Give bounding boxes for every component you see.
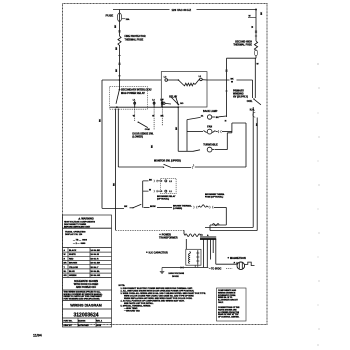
wire main row <box>110 106 178 108</box>
spec rows <box>65 230 88 245</box>
svg-text:RED: RED <box>69 258 74 260</box>
svg-text:BK: BK <box>115 24 117 28</box>
svg-text:BK: BK <box>216 117 220 119</box>
wire color table <box>64 249 101 277</box>
node relay feed <box>177 106 179 108</box>
label HV CAPACITOR <box>146 251 168 254</box>
svg-text:DWG. BY: DWG. BY <box>64 325 73 327</box>
transformer secondary wires <box>204 239 216 267</box>
label 15A <box>122 18 130 21</box>
svg-text:W: W <box>249 16 251 18</box>
svg-text:H.V. CAPACITOR: H.V. CAPACITOR <box>149 251 168 254</box>
svg-text:14 GA BK: 14 GA BK <box>91 249 101 252</box>
label BROWN THERMAL LOWER <box>173 205 193 211</box>
label FUSE <box>106 14 114 18</box>
connector oval <box>254 50 257 56</box>
wire tag ticks left chain <box>118 31 120 76</box>
svg-text:312003624: 312003624 <box>73 312 98 318</box>
svg-text:BR: BR <box>64 263 68 265</box>
svg-text:MAGNETRON: MAGNETRON <box>230 257 246 260</box>
svg-text:ONLY.: ONLY. <box>218 302 224 304</box>
label WIRING DIAGRAM <box>70 304 102 308</box>
label MONITOR SW <box>154 160 181 163</box>
wire lamp left riser <box>186 120 188 152</box>
svg-text:20 GA BL: 20 GA BL <box>91 270 101 273</box>
notes list <box>119 285 207 312</box>
label TO 5VDC <box>209 268 233 271</box>
fan motor M1 <box>187 129 232 134</box>
svg-text:20 GA Y: 20 GA Y <box>91 266 99 269</box>
label 11/94 <box>33 334 42 338</box>
wire return riser to monitor <box>245 123 247 167</box>
svg-text:N.O.: N.O. <box>250 108 255 111</box>
wire transformer feed left <box>116 229 185 231</box>
transformer core <box>200 234 216 239</box>
svg-text:—GROUND TAB: —GROUND TAB <box>124 310 140 313</box>
label SECONDARY INTERLOCK MAG POWER RELAY <box>121 89 152 95</box>
ground <box>160 268 165 274</box>
border wire tag <box>261 11 263 15</box>
contact pin L4 <box>160 99 164 126</box>
wire fan riser right <box>227 123 246 133</box>
svg-text:BK: BK <box>116 68 118 72</box>
relay switch to node <box>175 95 178 104</box>
svg-text:— TB — 0609: — TB — 0609 <box>73 239 88 241</box>
browner relay dashed box <box>161 178 176 193</box>
browner row switch <box>124 204 172 208</box>
label PRIMARY WINDING SUPPLY <box>233 89 248 98</box>
contact pin L3 <box>152 100 155 130</box>
label FIRE PROTECTOR THERMAL FUSE <box>125 35 146 41</box>
svg-text:BROWNER RELAY: BROWNER RELAY <box>157 195 176 198</box>
svg-text:REV. A: REV. A <box>96 319 103 322</box>
svg-text:BEFORE SERVICING UNIT: BEFORE SERVICING UNIT <box>64 227 91 229</box>
label HIGH VOLTAGE DIODE <box>169 272 185 278</box>
svg-text:3120036: 3120036 <box>78 320 85 322</box>
wire HV bottom row <box>162 267 208 269</box>
browner thermal protector <box>194 205 227 209</box>
svg-text:W: W <box>64 254 66 256</box>
label POWER TRANSFORMER <box>159 233 178 239</box>
svg-text:DIODE: DIODE <box>172 276 179 278</box>
cook switch <box>250 98 261 111</box>
svg-text:BK: BK <box>261 11 263 15</box>
svg-text:20 GA GR: 20 GA GR <box>91 274 101 277</box>
svg-text:FUSE (OPTIONAL): FUSE (OPTIONAL) <box>205 195 224 198</box>
wire lamp feed drop <box>176 107 178 151</box>
label TURNTABLE <box>203 144 218 147</box>
svg-text:18 GA BR: 18 GA BR <box>91 262 101 265</box>
node top right <box>255 9 257 11</box>
svg-text:W: W <box>231 81 233 83</box>
wire tag ticks right chain <box>225 31 257 91</box>
interlock dashed box <box>110 86 148 109</box>
svg-text:FAN: FAN <box>207 125 212 128</box>
svg-text:BK: BK <box>116 46 118 50</box>
svg-text:PART NO.: PART NO. <box>64 319 73 322</box>
svg-text:PART NUMBERS AND SPECIFICATION: PART NUMBERS AND SPECIFICATIONS. <box>64 298 101 301</box>
fine print block <box>64 291 104 301</box>
svg-text:W: W <box>257 64 259 66</box>
monitor switch S2 <box>118 164 246 168</box>
label FAN <box>207 125 212 128</box>
wire fuse to thermal fuse <box>115 21 120 36</box>
svg-text:MAG POWER RELAY: MAG POWER RELAY <box>121 92 145 95</box>
svg-text:WIRING DIAGRAM: WIRING DIAGRAM <box>70 304 102 308</box>
wire lamp bottom rail <box>178 150 193 152</box>
svg-text:HIGH VOLTAGE: HIGH VOLTAGE <box>169 272 185 275</box>
browner relay contacts <box>161 180 173 193</box>
wire browner drop <box>210 207 226 230</box>
svg-text:BK/W: BK/W <box>150 206 156 208</box>
svg-text:BROWN: BROWN <box>69 263 78 265</box>
label BACK LAMP <box>203 110 218 113</box>
svg-text:BK: BK <box>176 126 178 130</box>
svg-text:COM: COM <box>145 129 150 131</box>
svg-text:(OPTIONAL): (OPTIONAL) <box>157 198 169 201</box>
svg-text:BLACK: BLACK <box>69 249 77 252</box>
wire primary drop <box>252 80 254 98</box>
turntable motor M2 <box>193 147 227 152</box>
svg-text:11/94: 11/94 <box>33 334 42 338</box>
label DOOR SENSE SW LOWER <box>132 133 153 139</box>
svg-text:(LOWER): (LOWER) <box>132 136 143 139</box>
wire to magnetron <box>216 262 239 265</box>
svg-text:OF CONTROL CENTER.: OF CONTROL CENTER. <box>218 317 240 319</box>
svg-text:FUSE: FUSE <box>106 14 114 18</box>
browner relay leads <box>143 179 161 207</box>
wire neutral jog left <box>227 56 257 59</box>
svg-text:W: W <box>152 115 154 117</box>
svg-text:BK: BK <box>100 118 102 122</box>
contact pin L1 <box>133 100 136 121</box>
back lamp DS1 <box>187 115 227 120</box>
label COIL <box>247 100 253 103</box>
wire left drop to junction <box>116 46 120 81</box>
svg-text:W: W <box>252 26 254 28</box>
relay aux contact <box>161 98 184 106</box>
part number 312003624 <box>73 312 98 318</box>
schematic shown block <box>74 280 99 289</box>
label MAGNETRON <box>228 257 246 260</box>
capacitor bottom ticks <box>195 265 198 267</box>
transformer T1 primary coil <box>184 230 201 236</box>
svg-text:BROWN THERMAL: BROWN THERMAL <box>173 205 193 208</box>
label BROWNER THERMAL FUSE OPTIONAL <box>205 194 225 199</box>
svg-text:BLUE: BLUE <box>69 271 75 273</box>
svg-text:⚠ WARNING: ⚠ WARNING <box>78 216 94 220</box>
warning header <box>64 216 96 228</box>
magnetron V1 <box>237 262 255 270</box>
relay coil and terminals <box>164 76 207 86</box>
label SECOND HIGH THERMAL FUSE <box>233 41 252 47</box>
wire left tall drop BK <box>100 80 102 208</box>
svg-text:18 GA R: 18 GA R <box>91 257 100 260</box>
svg-text:15A: 15A <box>126 18 130 21</box>
svg-text:TRANS. OPERATING: TRANS. OPERATING <box>65 230 86 233</box>
power relay box U1 <box>161 72 207 107</box>
svg-text:W: W <box>133 115 135 117</box>
svg-text:— 2 — 0609: — 2 — 0609 <box>73 243 86 245</box>
svg-text:TRANSFORMER: TRANSFORMER <box>159 237 178 240</box>
wire HV drop 2 <box>210 118 257 231</box>
svg-text:GR: GR <box>64 275 68 277</box>
svg-text:THERMAL FUSE: THERMAL FUSE <box>125 38 144 41</box>
svg-text:TURNTABLE: TURNTABLE <box>203 144 218 147</box>
svg-text:BK: BK <box>152 144 154 148</box>
svg-text:DATE: DATE <box>96 324 102 327</box>
interlock output pair <box>113 109 118 231</box>
right note box <box>217 288 247 321</box>
svg-text:GREEN: GREEN <box>69 275 77 277</box>
svg-text:WHITE: WHITE <box>69 254 76 256</box>
svg-text:COIL: COIL <box>247 100 253 103</box>
svg-text:W: W <box>149 190 151 192</box>
svg-text:NO: NO <box>180 103 184 105</box>
fuse F1 <box>117 10 121 22</box>
svg-text:TO 5VDC: TO 5VDC <box>211 268 222 271</box>
wire fuse chain continues down <box>255 58 258 98</box>
HV capacitor C1 <box>186 249 201 265</box>
svg-text:NOTE:: NOTE: <box>119 285 126 287</box>
wire junction to relay box <box>102 79 161 81</box>
svg-text:THERMAL FUSE: THERMAL FUSE <box>233 44 252 47</box>
title block <box>63 215 112 327</box>
HV diode D1 <box>181 266 184 269</box>
svg-text:120 VAC 60 HZ: 120 VAC 60 HZ <box>172 8 192 12</box>
svg-text:AND POWER OFF: AND POWER OFF <box>76 286 97 289</box>
svg-text:DISPLAY P.N. 120: DISPLAY P.N. 120 <box>65 233 83 236</box>
svg-text:APPROVED: APPROVED <box>78 324 89 327</box>
thermal fuse fire protector <box>118 36 121 46</box>
svg-text:BK: BK <box>231 78 235 80</box>
svg-text:BK: BK <box>149 179 153 181</box>
svg-text:YELLOW: YELLOW <box>69 267 78 269</box>
wire top bus 120VAC <box>113 9 256 11</box>
scan speckle column <box>317 63 320 346</box>
label RELAY <box>169 96 177 99</box>
thermal fuse second high <box>254 41 257 50</box>
title strip <box>64 319 103 327</box>
wire HV drop 1 <box>205 107 253 227</box>
svg-text:MONITOR SW. (UPPER): MONITOR SW. (UPPER) <box>154 160 181 163</box>
svg-text:BACK LAMP: BACK LAMP <box>203 110 218 113</box>
label BROWNER RELAY OPTIONAL <box>157 195 176 201</box>
wire relay output to right <box>207 78 253 83</box>
wire right drop from bus <box>248 10 256 42</box>
wire left corner to browner row <box>102 207 124 209</box>
svg-text:BK: BK <box>124 206 128 208</box>
svg-text:16 GA W: 16 GA W <box>91 253 100 256</box>
wire neutral drop x226 <box>225 58 227 122</box>
wire capacitor feed <box>185 239 187 249</box>
svg-text:(LOWER): (LOWER) <box>173 208 182 210</box>
border frame <box>63 4 268 325</box>
svg-text:BK: BK <box>161 115 165 117</box>
svg-text:HV (SUPPLY): HV (SUPPLY) <box>233 96 248 99</box>
svg-text:BK: BK <box>113 182 115 186</box>
door sense switch <box>138 122 150 132</box>
cook switch hook <box>253 112 259 126</box>
interlock switch <box>116 80 120 108</box>
wire turntable riser <box>226 133 228 150</box>
label 120 VAC 60 HZ <box>172 8 192 12</box>
